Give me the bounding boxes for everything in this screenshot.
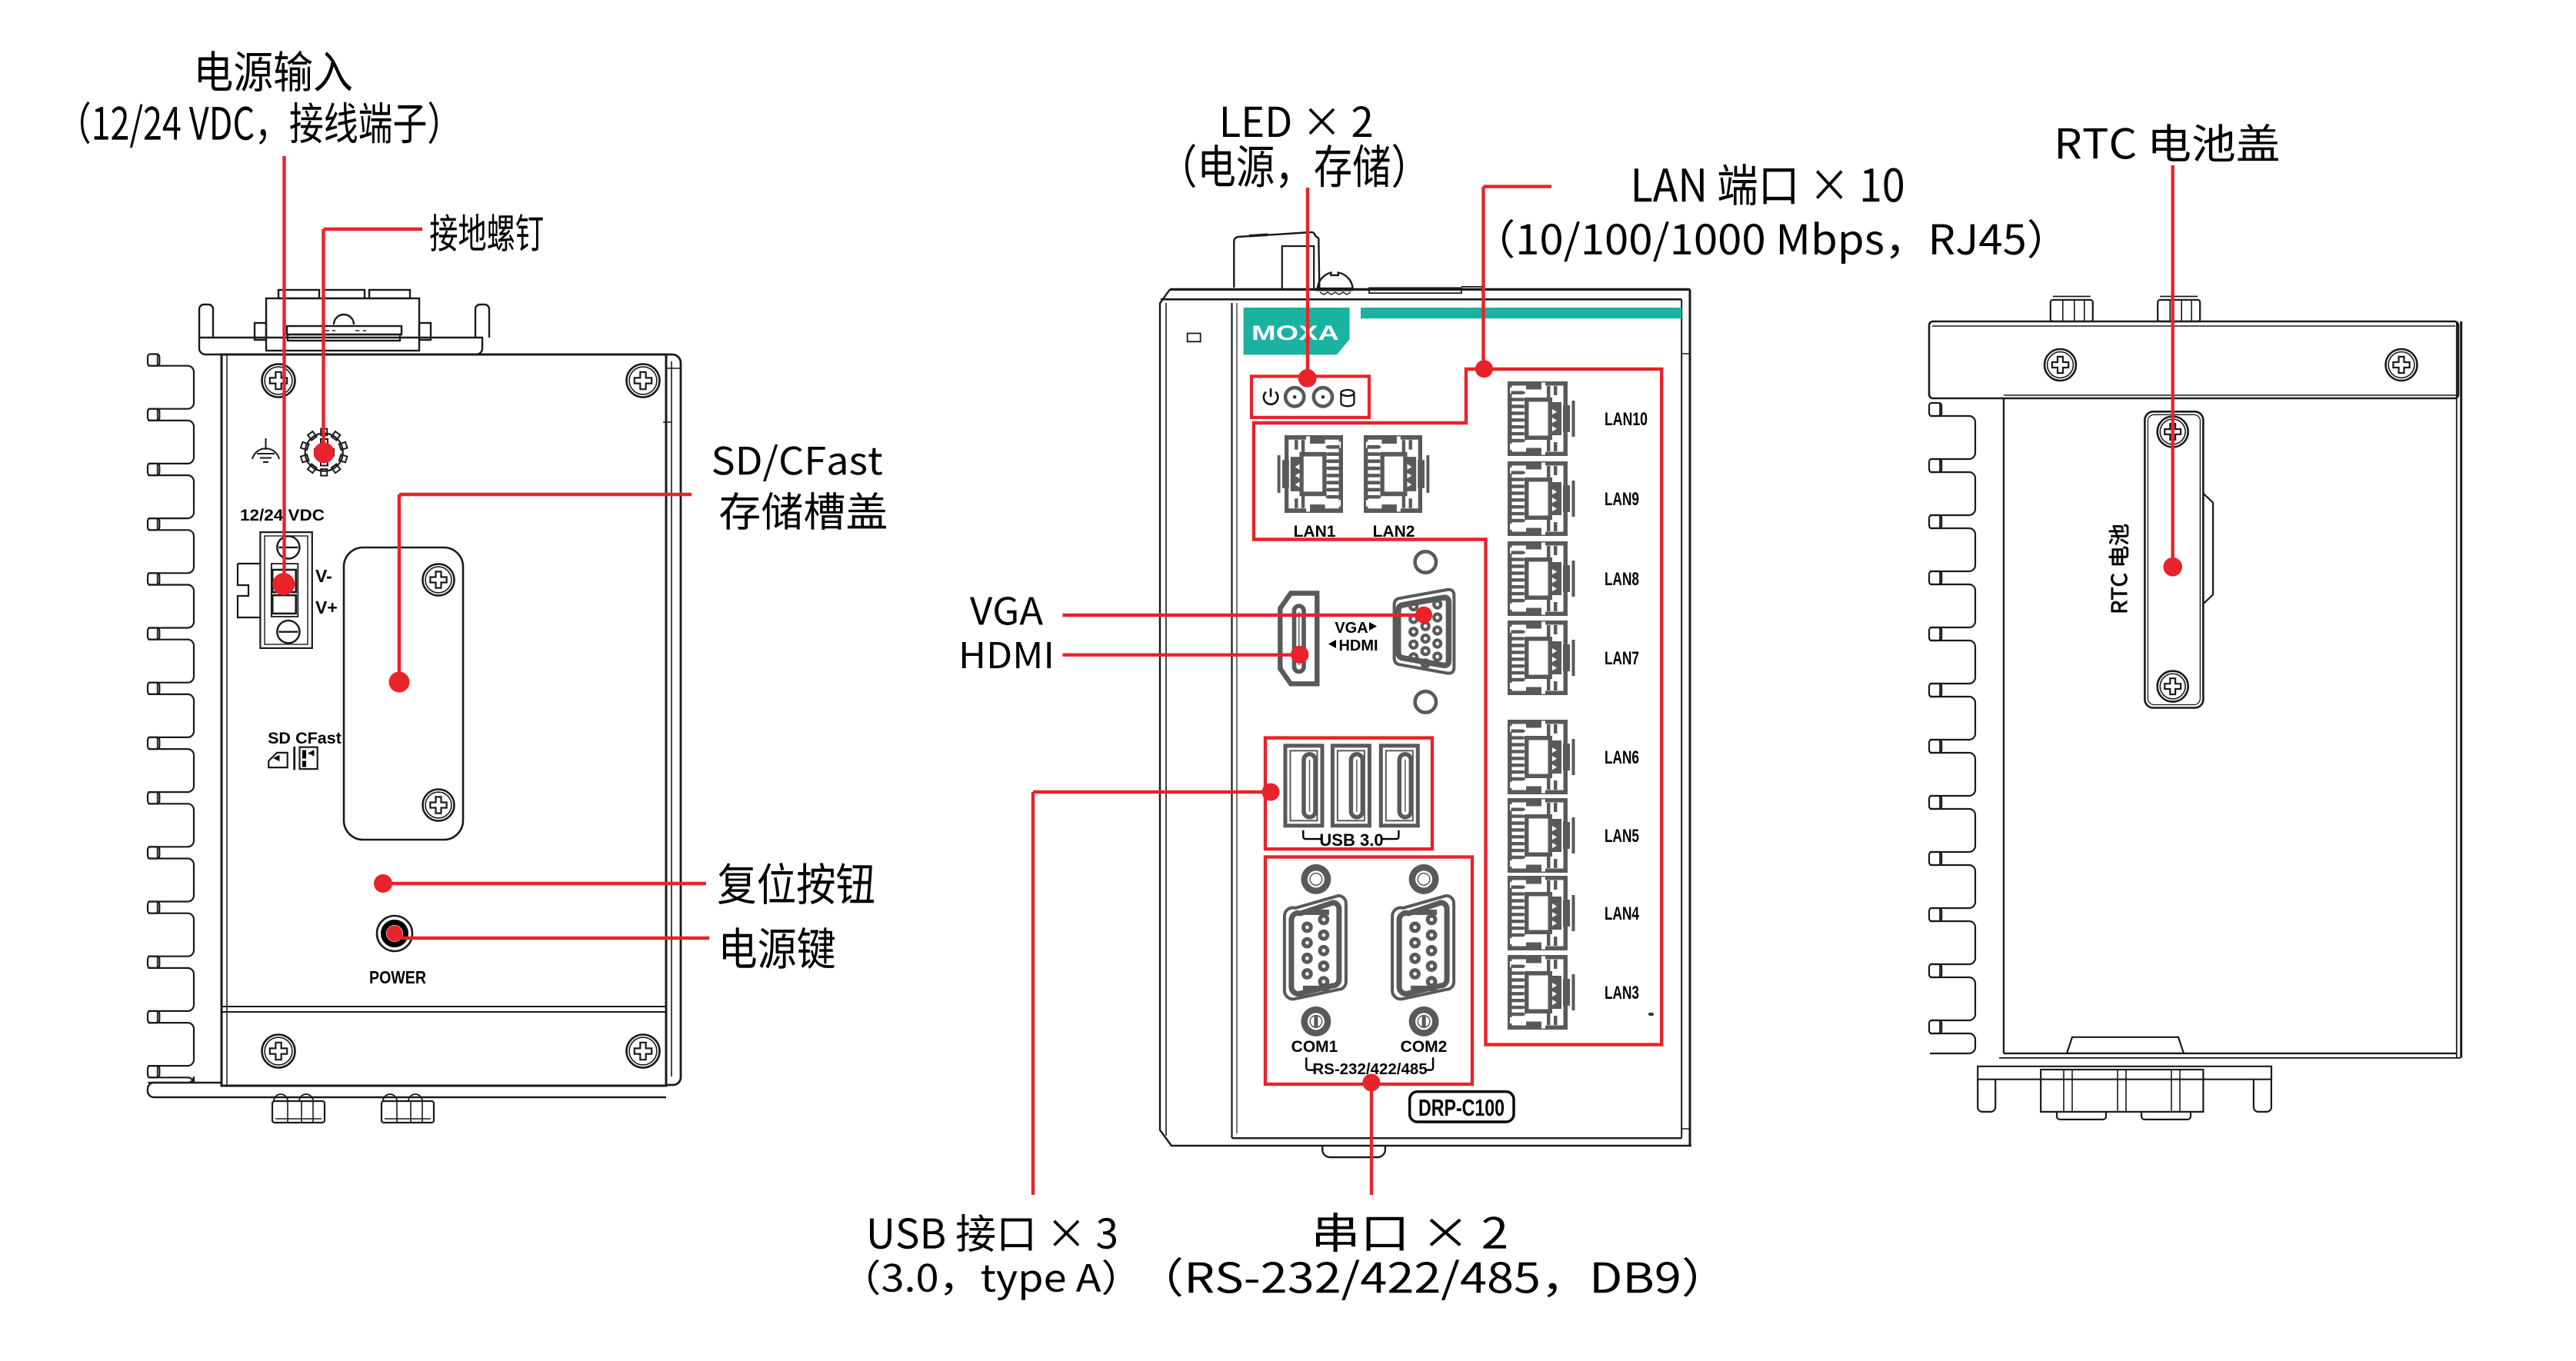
dot: ground screw	[314, 442, 335, 463]
label: LAN ports	[1635, 164, 1903, 205]
left view: body	[222, 354, 681, 1086]
right view: heatsink fins	[1929, 403, 1975, 1053]
LAN8 port	[1508, 541, 1575, 616]
dot: reset	[374, 874, 392, 893]
dot: COM	[1362, 1074, 1380, 1092]
red box: COM	[1265, 857, 1472, 1085]
svg-text:DRP-C100: DRP-C100	[1418, 1094, 1505, 1121]
dot: HDMI	[1291, 646, 1308, 664]
svg-text:POWER: POWER	[369, 967, 426, 987]
callout: COM line	[1370, 1083, 1373, 1195]
svg-text:MOXA: MOXA	[1251, 321, 1339, 344]
svg-text:HDMI: HDMI	[1338, 637, 1378, 654]
callout: LAN line	[1484, 185, 1552, 188]
callout: reset line	[383, 882, 706, 885]
SD/CFast cover plate	[344, 547, 463, 840]
svg-text:LAN7: LAN7	[1605, 648, 1639, 669]
dot: LED	[1298, 369, 1317, 388]
left view: bottom terminal stubs	[272, 1094, 325, 1123]
SD/CFast separator	[293, 747, 295, 770]
svg-text:LAN6: LAN6	[1605, 747, 1639, 768]
label: serial x2	[1316, 1213, 1506, 1252]
svg-text:V-: V-	[315, 566, 332, 586]
svg-text:LAN9: LAN9	[1605, 489, 1639, 510]
LAN7 port	[1508, 621, 1575, 695]
callout: power key line	[395, 937, 709, 940]
svg-text:LAN4: LAN4	[1605, 903, 1639, 924]
label: LED x2	[1223, 106, 1371, 137]
dot: SD cover	[389, 672, 410, 693]
svg-text:V+: V+	[315, 597, 338, 617]
left view: corner screws	[262, 364, 295, 398]
left view: top DIN rail bracket	[199, 290, 489, 354]
dot: RTC	[2163, 557, 2182, 577]
dot: VGA	[1415, 607, 1432, 624]
LAN3 port	[1508, 955, 1575, 1030]
teal header band	[1361, 308, 1681, 318]
label: HDMI	[962, 642, 1051, 668]
SD card icon	[268, 753, 288, 767]
red box: USB	[1265, 738, 1432, 850]
label: power input	[198, 51, 352, 92]
left view: bottom band	[148, 1007, 666, 1097]
callout: ground line	[324, 228, 423, 231]
dot: power terminal	[272, 573, 295, 595]
HDMI connector	[1280, 594, 1317, 684]
label: VGA	[970, 597, 1043, 625]
power terminal block	[238, 532, 312, 648]
svg-text:SD: SD	[268, 729, 291, 747]
RTC battery cover	[2144, 411, 2213, 707]
svg-text:COM2: COM2	[1401, 1038, 1448, 1056]
svg-text:LAN5: LAN5	[1605, 826, 1639, 847]
svg-text:CFast: CFast	[295, 729, 342, 747]
svg-text:VGA: VGA	[1335, 620, 1368, 637]
right view: bottom trapezoid bump	[2067, 1037, 2184, 1053]
VGA connector screws	[1415, 551, 1436, 572]
svg-text:USB 3.0: USB 3.0	[1319, 830, 1383, 850]
red box: LAN groups	[1254, 369, 1661, 1045]
label: USB x3	[870, 1214, 1116, 1252]
label: RTC battery (rotated)	[2109, 524, 2128, 612]
dot: LAN	[1475, 360, 1493, 378]
VGA DB15 connector	[1395, 590, 1455, 674]
label: RTC battery cover	[2058, 124, 2278, 161]
storage cylinder icon	[1341, 390, 1354, 406]
ground symbol	[252, 438, 279, 462]
label: SD/CFast cover	[713, 444, 882, 481]
svg-text:COM1: COM1	[1291, 1038, 1338, 1056]
ground screw	[301, 429, 347, 476]
LAN10 port	[1508, 381, 1575, 456]
label: ground screw	[430, 214, 542, 251]
red box: LEDs	[1251, 376, 1369, 418]
LAN6 port	[1508, 720, 1575, 794]
LAN9 port	[1508, 461, 1575, 536]
COM1 DB9	[1301, 864, 1331, 894]
right view: top plate	[1929, 321, 2458, 398]
speck near LAN3	[1648, 1013, 1654, 1016]
LED power symbol	[1264, 388, 1278, 404]
bottom foot tab	[1322, 1146, 1385, 1157]
callout: HDMI line	[1063, 654, 1301, 657]
svg-text:12/24 VDC: 12/24 VDC	[240, 506, 325, 524]
left view: heatsink fins	[148, 354, 194, 1084]
CFast icon	[300, 747, 318, 769]
DRP-C100 badge	[1410, 1092, 1514, 1122]
LAN1 port	[1278, 435, 1343, 513]
callout: USB line	[1033, 790, 1271, 794]
LAN4 port	[1508, 876, 1575, 950]
callout: power input line	[282, 156, 285, 584]
right view: top terminal stubs	[2051, 297, 2093, 322]
svg-text:LAN10: LAN10	[1605, 409, 1648, 430]
LAN2 port	[1364, 435, 1429, 513]
label: reset button	[718, 863, 874, 904]
LAN5 port	[1508, 798, 1575, 873]
middle view: top DIN clip	[1234, 232, 1482, 294]
callout: SD cover line	[399, 493, 691, 496]
COM2 DB9	[1409, 864, 1439, 894]
label: power key	[723, 927, 835, 969]
LED indicators	[1285, 388, 1304, 406]
callout: VGA line	[1063, 614, 1425, 617]
power button	[377, 916, 412, 951]
callout: LED line	[1306, 188, 1309, 378]
svg-text:LAN3: LAN3	[1605, 983, 1639, 1003]
svg-text:LAN8: LAN8	[1605, 569, 1639, 590]
USB ports x3	[1285, 746, 1322, 826]
dot: USB	[1262, 784, 1280, 801]
middle view: body outline	[1160, 289, 1691, 1146]
right view: bottom DIN clip	[1978, 1067, 2271, 1120]
VGA pins	[1410, 603, 1417, 610]
callout: RTC line	[2171, 165, 2174, 567]
MOXA teal logo block	[1244, 308, 1350, 354]
dot: power button	[387, 926, 403, 942]
right view: body	[1999, 321, 2461, 1058]
